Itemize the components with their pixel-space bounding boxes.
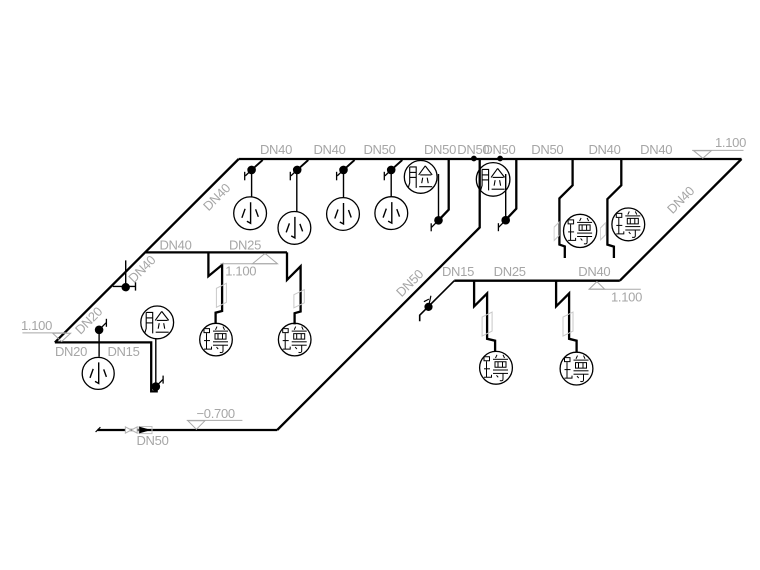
svg-text:−0.700: −0.700: [197, 406, 235, 421]
elevation mark left 1.100: [22, 333, 70, 342]
svg-text:1.100: 1.100: [21, 318, 52, 333]
svg-text:DN50: DN50: [483, 142, 515, 157]
fixture circle dun R2: [560, 352, 593, 385]
pipe: squat branch R1 zigzag: [474, 281, 495, 352]
svg-text:DN40: DN40: [640, 142, 672, 157]
basin L faucet: [152, 376, 164, 391]
fixture circle xiao U1: [234, 197, 267, 230]
pipe: squat branch R2 zigzag: [556, 281, 577, 353]
ghost pan M2: [294, 290, 304, 308]
fixture circle lian L: [141, 306, 174, 339]
pipe: basin riser 1: [440, 159, 449, 219]
svg-text:DN50: DN50: [136, 433, 168, 448]
fixture circle lian 1: [404, 161, 437, 194]
basin 1 drop line: [438, 174, 440, 217]
svg-text:1.100: 1.100: [715, 135, 746, 150]
fixture circle dun UB: [612, 208, 645, 241]
tap U1: [245, 160, 263, 180]
pipe: right diagonal DN40: [620, 159, 742, 281]
fixture circle xiao L: [82, 357, 114, 389]
svg-text:DN20: DN20: [55, 344, 87, 359]
svg-text:DN25: DN25: [494, 264, 526, 279]
flow arrow: [139, 427, 151, 434]
svg-text:DN50: DN50: [363, 142, 395, 157]
tap U3: [337, 160, 355, 180]
fixture circle dun M2: [278, 323, 311, 356]
svg-text:DN40: DN40: [588, 142, 620, 157]
gate valve on supply: [125, 427, 137, 433]
svg-text:1.100: 1.100: [611, 290, 642, 305]
pipe: mid-left branch DN40/DN25: [146, 251, 287, 253]
drop line U3: [343, 170, 345, 198]
pipe: lower-right branch DN15/DN25/DN40: [454, 280, 620, 282]
basin 1 faucet: [431, 216, 443, 231]
junction dot B on header: [497, 156, 503, 162]
pipe: basin riser 2: [507, 159, 517, 219]
pipe: bottom main supply DN50: [98, 429, 278, 431]
pipe: squat branch M1 zigzag: [208, 252, 222, 323]
fixture circle lian 2: [476, 163, 510, 197]
junction dot A on header: [471, 156, 477, 162]
fixture circle dun R1: [480, 351, 513, 384]
basin 2 faucet: [498, 216, 510, 231]
svg-text:DN40: DN40: [578, 264, 610, 279]
tap U4: [384, 160, 402, 180]
connector: lower-right branch stub with valve: [420, 281, 455, 322]
fixture circle xiao U3: [327, 198, 360, 231]
basin 2 drop line: [505, 174, 507, 217]
svg-text:DN50: DN50: [424, 142, 456, 157]
drop line U2: [296, 170, 298, 212]
fixture circle dun UA: [564, 214, 597, 247]
pipe: squat branch UB zigzag: [607, 159, 621, 258]
ghost pan R1: [482, 312, 492, 336]
svg-text:1.100: 1.100: [225, 264, 256, 279]
flow arrow box: [139, 427, 152, 434]
svg-text:DN40: DN40: [313, 142, 345, 157]
fixture circle dun M1: [200, 323, 233, 356]
svg-text:DN40: DN40: [159, 238, 191, 253]
tick: supply inlet end: [96, 427, 101, 432]
pipe: top main DN40-DN50 header: [239, 158, 742, 160]
urinal L drop line: [98, 334, 100, 357]
svg-text:DN50: DN50: [531, 142, 563, 157]
fixture circle xiao U4: [375, 197, 408, 230]
drop line U4: [390, 170, 392, 197]
pipe: bottom-left branch DN20 with basin drop: [55, 342, 158, 391]
elevation mark top-right 1.100: [692, 150, 743, 158]
valve on left diagonal: [125, 260, 127, 283]
drop line U1: [251, 170, 253, 197]
valve: stub valve tick: [429, 296, 431, 307]
valve: stub valve dot: [424, 303, 432, 311]
svg-text:DN40: DN40: [260, 142, 292, 157]
pipe: DN50 riser diagonal: [277, 159, 480, 430]
ghost pan UA: [554, 222, 559, 240]
svg-text:DN15: DN15: [442, 264, 474, 279]
svg-text:DN25: DN25: [229, 238, 261, 253]
pipe: squat branch UA zigzag: [559, 159, 572, 258]
urinal L faucet: [95, 319, 107, 334]
pipe: squat branch M2 zigzag: [287, 252, 301, 324]
elevation mark bottom -0.700: [187, 420, 243, 429]
pipe: left outer diagonal DN40: [55, 159, 239, 342]
elevation mark right-mid 1.100: [589, 282, 641, 290]
tap U2: [290, 160, 308, 180]
ghost pan R2: [563, 312, 573, 336]
svg-text:DN15: DN15: [107, 344, 139, 359]
ghost pan UB: [601, 223, 606, 240]
basin L drop line: [155, 339, 157, 383]
elevation mark mid-left 1.100: [220, 253, 277, 263]
fixture circle xiao U2: [278, 212, 311, 245]
ghost pan M1: [216, 283, 226, 307]
